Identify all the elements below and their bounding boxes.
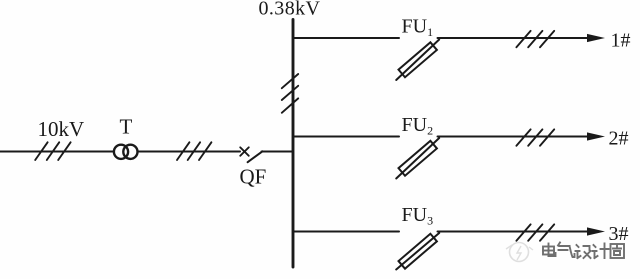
svg-text:3#: 3#: [609, 223, 629, 245]
wire between transformer and breaker: [138, 151, 240, 153]
feeder 1 slash marks: [516, 31, 554, 47]
circuit breaker QF contact cross: [240, 147, 249, 156]
wire incoming 10kV line left segment: [0, 151, 114, 153]
glyph ji: [593, 244, 609, 259]
svg-text:FU1: FU1: [402, 16, 434, 40]
fuse FU3 body: [399, 234, 437, 269]
feeder 1 arrowhead: [587, 34, 605, 42]
feeder 3 arrowhead: [587, 227, 605, 235]
feeder 2 arrowhead: [587, 132, 605, 140]
glyph qi: [558, 243, 575, 258]
wire feeder 3 right segment: [438, 231, 589, 233]
svg-text:FU3: FU3: [402, 204, 434, 228]
glyph dian: [543, 244, 556, 257]
busbar three-phase slash marks: [282, 74, 298, 113]
svg-text:2#: 2#: [609, 128, 629, 150]
wire feeder 2 right segment: [438, 136, 589, 138]
circuit breaker QF blade: [248, 151, 263, 162]
fuse FU2 blade: [396, 138, 439, 179]
wire breaker to busbar: [262, 151, 294, 153]
watermark text 电气设计圈: [543, 243, 624, 259]
feeder 2 slash marks: [516, 129, 554, 145]
svg-text:T: T: [120, 115, 133, 139]
svg-text:1#: 1#: [611, 30, 631, 52]
fuse FU1 body: [399, 42, 437, 77]
watermark logo circle: [506, 243, 533, 262]
busbar 0.38kV vertical: [292, 20, 295, 268]
svg-text:10kV: 10kV: [38, 117, 85, 141]
svg-text:QF: QF: [240, 165, 267, 189]
feeder 3 slash marks: [516, 224, 554, 240]
wire feeder 1 right segment: [438, 37, 589, 39]
three-phase slash marks group 1: [35, 142, 70, 160]
glyph she: [576, 245, 591, 258]
fuse FU3 blade: [396, 233, 439, 270]
wire feeder 2 left segment: [294, 136, 399, 138]
fuse FU1 blade: [396, 40, 439, 81]
three-phase slash marks group 2: [177, 142, 211, 160]
svg-text:0.38kV: 0.38kV: [259, 0, 321, 20]
svg-text:FU2: FU2: [402, 114, 434, 138]
wire feeder 1 left segment: [294, 37, 399, 39]
transformer T: [114, 145, 138, 159]
wire feeder 3 left segment: [294, 231, 399, 233]
glyph quan: [611, 244, 625, 258]
fuse FU2 body: [399, 141, 437, 176]
